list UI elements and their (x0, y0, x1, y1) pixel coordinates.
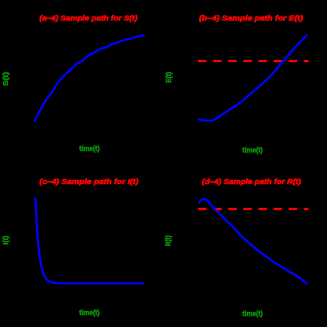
svg-text:(b–4) Sample path for E(t): (b–4) Sample path for E(t) (199, 13, 304, 22)
red dashed threshold line (bottom-right, R) (198, 208, 309, 210)
svg-text:time(t): time(t) (242, 147, 262, 154)
svg-text:(a–4) Sample path for S(t): (a–4) Sample path for S(t) (39, 13, 137, 22)
curve S(t) sample path (35, 35, 144, 120)
red dashed threshold line (top-right, E) (198, 60, 309, 62)
svg-text:I(t): I(t) (3, 236, 10, 245)
curve I(t) sample path (35, 198, 143, 283)
curve E(t) sample path (199, 35, 307, 120)
svg-text:(d–4) Sample path for R(t): (d–4) Sample path for R(t) (202, 177, 301, 186)
svg-text:time(t): time(t) (242, 311, 262, 318)
svg-text:time(t): time(t) (79, 146, 99, 153)
svg-text:(c–4) Sample path for I(t): (c–4) Sample path for I(t) (39, 177, 139, 186)
svg-text:time(t): time(t) (79, 310, 99, 317)
svg-text:R(t): R(t) (166, 235, 173, 246)
svg-text:E(t): E(t) (166, 72, 173, 83)
curve R(t) sample path (199, 199, 307, 284)
svg-text:S(t): S(t) (3, 72, 10, 86)
